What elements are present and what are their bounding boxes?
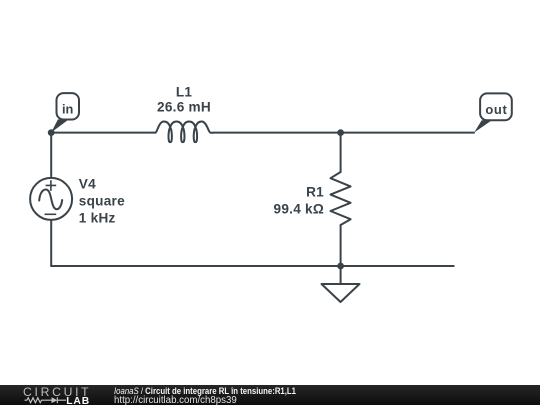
wire V4 bottom to bottom rail	[50, 221, 52, 266]
voltage source V4	[30, 178, 72, 220]
label R1 value 99.4 kOhm	[274, 202, 324, 217]
label L1 value 26.6 mH	[157, 100, 211, 115]
node junction dot top of R1	[337, 129, 344, 136]
svg-text:1 kHz: 1 kHz	[79, 210, 116, 225]
node flag in	[51, 93, 79, 132]
svg-text:V4: V4	[79, 176, 96, 191]
svg-text:R1: R1	[306, 185, 324, 200]
wire top left from node in to inductor	[51, 132, 155, 134]
node flag out	[474, 93, 512, 132]
wire top from inductor to out	[213, 132, 474, 134]
svg-text:in: in	[62, 101, 74, 116]
svg-text:out: out	[485, 102, 507, 117]
svg-text:L1: L1	[176, 84, 193, 99]
node junction dot bottom of R1	[337, 263, 344, 270]
wire R1 bottom lead	[340, 225, 342, 266]
resistor R1	[331, 172, 351, 225]
footer bar	[0, 385, 540, 405]
CircuitLab logo	[18, 384, 98, 405]
node in junction dot	[48, 129, 55, 136]
label L1	[176, 84, 193, 99]
svg-text:LAB: LAB	[66, 396, 90, 405]
label V4 type square	[79, 193, 125, 208]
svg-text:26.6 mH: 26.6 mH	[157, 100, 211, 115]
svg-text:99.4 kΩ: 99.4 kΩ	[274, 202, 324, 217]
wire bottom rail	[51, 265, 454, 267]
svg-text:square: square	[79, 193, 125, 208]
wire R1 top lead	[340, 133, 342, 172]
wire left vertical node in to V4	[50, 133, 52, 177]
ground	[322, 284, 360, 302]
inductor L1	[155, 122, 213, 143]
footer url	[114, 395, 237, 405]
label V4	[79, 176, 96, 191]
label R1	[306, 185, 324, 200]
label V4 frequency 1 kHz	[79, 210, 116, 225]
footer title	[114, 386, 296, 396]
wire ground stub	[340, 266, 342, 284]
